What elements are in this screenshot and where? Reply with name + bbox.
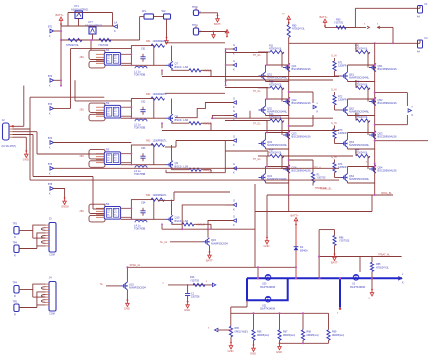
wire U51 left pin 4 [96,62,104,64]
wire loop upper U53 [89,150,105,159]
wire gate drop bank1 sw2 [281,88,283,102]
wire J3 loop 4-5 [41,236,45,239]
junction out1 bank1 [288,91,290,93]
wire SPDA horizontal [127,266,296,268]
svg-text:TP4: TP4 [13,282,18,285]
wire TP3a link [19,230,33,232]
svg-text:35xPTK3#DW: 35xPTK3#DW [350,286,366,289]
svg-text:TP70: TP70 [192,6,198,9]
wire TP bracket left drop [318,230,320,279]
wire J4 pin8 stub [46,301,50,303]
wire drain stub bank1 sw1 [265,65,267,72]
label U22 value 35xPTK3 [350,286,366,289]
wire J2 pin 4 stub [9,134,13,136]
svg-text:GND: GND [228,349,234,353]
transistor Q53 bank2 right [369,131,397,139]
svg-text:NT5024Y3L: NT5024Y3L [292,28,305,31]
wire J2 pin2 riser [29,97,31,129]
svg-text:BATT+: BATT+ [56,13,65,17]
junction kelvin row1a [225,48,227,50]
wire diode to bus [295,250,297,278]
resistor R85 [370,262,373,271]
label R69 [332,331,337,334]
svg-text:TP_G1: TP_G1 [253,123,261,126]
label R85 [376,263,381,266]
wire jumper W2 drop [166,19,168,37]
label R64 [146,194,151,197]
label U22 [352,283,356,286]
label R62 value 1206FRE07L [153,93,168,96]
svg-text:0R005(xxx): 0R005(xxx) [307,334,319,337]
wire out2 bank1 horizontal [289,159,313,161]
wire driver fet gate row2 [154,117,166,119]
junction shunt sense [230,329,232,331]
transistor Q24 bank1 right [283,165,311,173]
label R74 value [338,166,347,169]
wire driver fet gate row1 [154,64,166,66]
svg-text:AS431ANTR-E1: AS431ANTR-E1 [85,24,103,27]
power flag down W2 [165,37,169,44]
wire bus row4 gate top [174,191,230,193]
svg-text:0R005(xxx): 0R005(xxx) [257,334,269,337]
transistor Q33 bank1 left [259,140,288,148]
wire fuse1 riser [354,8,356,27]
svg-text:BSC0...LS6: BSC0...LS6 [175,65,189,69]
wire J2 pin4 horizontal [13,134,34,136]
wire C15 bottom stub [187,298,189,302]
svg-text:C62: C62 [141,100,146,103]
label J3 COM [49,254,55,257]
wire U53 left pin 2 [96,156,104,158]
junction riser row1 b [225,80,227,82]
port kelvin K3 [233,96,236,109]
svg-text:0R01(^b0&*): 0R01(^b0&*) [235,330,249,333]
wire TP4b link [19,307,37,309]
svg-text:220TE8: 220TE8 [191,296,200,299]
label R76 value Y3GT020 [98,44,109,47]
junction riser row1 a [225,51,227,53]
op-amp U51 gate driver [104,53,120,66]
junction shunt bottom 303 [302,342,304,344]
label net TP A [315,187,327,190]
wire out2 bank2 horizontal [375,140,428,142]
test point TP4a [14,286,19,294]
svg-text:GND: GND [264,244,270,248]
svg-text:BSC059N04LS6: BSC059N04LS6 [292,101,312,105]
svg-text:1206FR: 1206FR [338,65,347,68]
label R66 value [257,334,269,337]
wire J3 pin9 stub [46,245,50,247]
junction bus 340 [339,277,341,279]
wire R85 to bus [371,272,373,279]
svg-text:GND: GND [23,158,29,162]
resistor R66 shunt [252,330,255,341]
resistor R86 [333,236,336,246]
wire out1 bank1 drop [312,92,314,103]
label net gate bank1 sw1 [253,54,261,57]
wire driver fet drain row2 [171,99,173,115]
svg-text:BSC059N04LS6: BSC059N04LS6 [378,67,398,71]
wire gate feed bank2 sw3 [355,113,357,121]
op-amp U53 gate driver [104,152,120,165]
junction out2 bank2 low [374,163,376,165]
label R13 bank1 [269,113,274,116]
wire row4 left drop [161,224,163,229]
wire source stub bank2 sw1 [347,80,349,82]
wire U71 bottom stub [78,19,80,27]
label pin net U52 [80,109,85,112]
jumper W2 [162,9,171,19]
transistor Q32 bank1 left [259,106,288,114]
wire kelvin K3 stub [225,102,233,104]
wire J3 pin2 stub [46,227,50,229]
wire row2 feed2 riser [74,80,76,101]
wire BT1 route [54,30,61,32]
wire U53 right pin2 [121,162,132,164]
svg-text:BT1: BT1 [48,27,53,29]
resistor gate R42 bank2 [356,86,370,89]
wire shunt4 stub [302,313,304,330]
label R86 [339,236,344,239]
wire top loop left vertical [67,13,69,27]
svg-text:F1: F1 [425,2,428,6]
wire kelvin riser row1 [225,49,227,86]
svg-text:TDK765B: TDK765B [134,73,146,77]
wire top loop horizontal [68,12,113,14]
wire J2 pin2 riser low [29,129,31,180]
net tie right [378,26,381,29]
port input BT1 [48,27,54,38]
wire J4 loop 4-5 [41,295,45,298]
svg-text:TP5: TP5 [13,301,18,304]
svg-text:GND: GND [250,352,256,356]
svg-text:K: K [233,67,235,71]
svg-text:VC: VC [114,160,117,162]
wire rail2 vertical [374,43,376,195]
wire row1 res link [172,69,190,71]
wire diode feed [295,225,297,247]
wire shunt top bus [231,312,329,314]
junction SPDA drop [257,266,259,268]
junction gate bank1 sw3 [266,132,268,134]
wire row2 feed2 [75,100,131,102]
inductor L4 [134,220,147,230]
label R68 value [307,334,319,337]
label net out2 bank2 [366,161,368,164]
wire TP res drop [371,257,373,263]
wire kelvin K7 stub [225,204,233,206]
junction row2 res [161,122,163,124]
junction cap loop2 U53 [131,164,133,166]
junction bank2 rail top [374,42,376,44]
resistor R54 [182,223,194,226]
wire bus s4 kelvin2 [30,179,339,181]
svg-text:NC: NC [107,215,111,217]
svg-text:K: K [233,51,235,55]
port kelvin K2 [233,59,236,72]
junction out1 bank2 [374,92,376,94]
regulator U71 [75,11,83,19]
svg-text:K: K [233,118,235,122]
label R11 bank1 [269,45,274,48]
junction BT1 [60,30,62,32]
resistor R65 shunt [229,326,232,337]
wire kelvin K5 stub [225,140,233,142]
svg-text:G_HI: G_HI [331,122,337,125]
wire BT6 route [54,189,65,199]
wire row3 right elbow [201,169,211,171]
wire rail1 vertical [288,37,290,195]
svg-text:BSC0...LS6: BSC0...LS6 [175,118,189,122]
wire return bus 211 [255,211,372,213]
label TP4b [13,301,18,304]
svg-text:COM: COM [49,313,55,316]
wire SPDA drop to bus [257,267,259,278]
wire drain link bank2 sw2 [348,98,375,100]
wire J4 pin5 stub [46,294,50,296]
label net gate4 [331,156,337,159]
wire Q15 source drop [209,246,211,252]
wire bank rail bus horizontal [289,42,420,44]
svg-text:BT5: BT5 [48,164,53,166]
label R73 [338,129,343,132]
svg-text:K: K [233,105,235,109]
wire source stub bank2 sw3 [347,148,349,150]
transistor Q15 low-side [203,238,229,246]
label J4 COM [49,313,55,316]
wire out2 bank1 drop [312,160,314,173]
power flag down TP71 [212,31,216,38]
label C63 [141,147,146,150]
svg-text:BATT-: BATT- [331,261,339,265]
wire U52 right pin1 [121,106,132,108]
label TP3b [13,242,18,245]
junction drain bank1 sw3 [288,132,290,134]
wire gnd drop bank1 [266,195,268,238]
wire U53 left pin 4 [96,162,104,164]
label R43 value bank2 [355,116,368,119]
label U53 [105,147,110,151]
svg-text:VC: VC [114,215,117,217]
svg-text:K: K [317,109,319,113]
wire sw4 gate jog [267,151,269,156]
junction cap loop2 U54 [131,218,133,220]
wire J4 second loop [37,292,46,305]
wire row3 res link [172,169,190,171]
wire J4 pin2 stub [46,286,50,288]
svg-text:R62: R62 [146,93,151,96]
wire TP3b link riser [36,246,38,249]
wire bus sw2 gate [225,87,268,89]
wire U51 right pin2 [121,62,132,64]
junction kelvin row2 tee [211,117,213,119]
diode D1 [294,245,308,252]
junction loop1 drop [90,39,92,41]
wire U53 loop bottom ext [121,164,132,166]
wire J2 pin5 horizontal [13,136,27,138]
svg-text:NC: NC [107,114,111,116]
label R67 [283,331,288,334]
wire source link bank1 sw1 [266,81,289,83]
transistor U22 bus [353,275,359,281]
wire out1 bank1 horizontal [289,91,313,93]
wire source stub bank2 sw2 [347,114,349,116]
label net SL2 [100,283,104,286]
label R65 value [235,330,249,333]
svg-text:R: R [14,295,16,298]
svg-text:BSC059N04LS6: BSC059N04LS6 [378,169,398,173]
wire drain stub bank2 sw1 [347,65,349,72]
wire U53 left pin 1 [96,153,104,155]
op-amp U54 gate driver [104,207,120,220]
wire driver fet source row4 [171,223,173,224]
wire driver fet gate row3 [154,164,166,166]
label R14 value bank1 [269,152,282,155]
wire U15 source drop [126,290,128,300]
svg-text:BSC059N04LS6: BSC059N04LS6 [292,169,312,173]
resistor R67 shunt [278,330,281,341]
label R69 value [332,334,344,337]
wire rail1 top stub [288,22,290,25]
svg-text:2B1: 2B1 [80,155,85,158]
wire cap loop U54 [131,200,153,220]
label C61 [141,47,146,50]
svg-text:NT5024Y3L: NT5024Y3L [355,83,368,86]
label net 3V3 row2 [203,122,212,125]
resistor R17 sense [311,173,314,183]
svg-text:TP_G1: TP_G1 [253,54,261,57]
svg-text:K: K [233,207,235,211]
label R86 value Y3GT020 [339,240,350,243]
transistor U21 bus [265,296,271,302]
svg-text:K: K [233,223,235,227]
transistor Q51 bank2 right [369,64,397,72]
wire J2 pin1 riser [23,86,25,127]
wire row2 right elbow [201,122,211,124]
svg-text:NT5024Y3L: NT5024Y3L [269,152,282,155]
junction cap loop U52 [131,106,133,108]
wire drain stub bank2 sw4 [347,167,349,174]
wire source link bank2 sw4 [348,182,375,184]
wire gate drop bank2 sw2 [367,88,369,102]
fuse F2 [418,36,428,48]
junction row4 res [161,223,163,225]
power flag BATT+ mid-top [225,30,229,38]
wire cap loop U53 [131,145,153,165]
label U77 value AS431ANTR-E1 [85,24,103,27]
svg-text:GND8: GND8 [61,205,69,209]
label R63 [146,139,151,142]
svg-text:1A: 1A [114,20,117,24]
junction SPDA U15 [126,266,128,268]
label R80 [292,24,297,27]
label R42 bank2 [355,80,360,83]
port pin 1A [114,20,117,33]
label TP3a ref [14,236,16,239]
port out1 bank2 [408,105,413,117]
wire driver fet source row1 [171,69,173,70]
wire drain link bank2 sw1 [348,64,375,66]
label net gate bank1 sw2 [253,90,261,93]
wire row1 left drop [161,70,163,75]
label TP70 ref [200,12,202,15]
svg-text:BSC059N04LS6: BSC059N04LS6 [292,135,312,139]
wire pulldown gate link sw3 [335,143,341,145]
wire R68 bottom stub [302,340,304,343]
wire BT3 route [54,107,71,109]
label net mid x [163,282,165,285]
net stub TP71 [195,26,197,29]
capacitor C61 [140,54,145,62]
junction drive row1 batt [60,85,62,87]
capacitor C63 [140,153,145,161]
net tie left [367,26,370,29]
svg-text:0R005(xxx): 0R005(xxx) [332,334,344,337]
wire bus row4 rail [162,228,255,230]
wire out1 bank2 drop [406,93,408,106]
net stub TP70 [195,8,197,11]
ground shunt bottom [276,342,282,353]
port mid SPDA out [212,283,215,286]
svg-text:G: G [233,43,235,47]
wire drain stub bank2 sw2 [347,99,349,106]
wire bus row3 rail [166,172,225,174]
wire drain stub bank1 sw4 [265,167,267,174]
wire loop upper U52 [89,103,105,112]
junction out1 bank2 low [374,124,376,126]
wire jumper riser [139,17,141,41]
label R43 bank2 [355,113,360,116]
junction bus 320 [318,277,320,279]
resistor R90 [336,26,346,29]
port input BT2 [48,76,54,87]
junction gate bank1 sw2 [266,98,268,100]
wire BT3 riser [70,49,72,109]
svg-text:BATT-: BATT- [206,259,214,263]
label pin net U53 [80,155,85,158]
wire gate drop bank2 sw4 [367,156,369,169]
junction drain bank1 sw2 [288,98,290,100]
svg-text:BATT+: BATT+ [291,213,300,217]
svg-text:AS431ANTR-E1: AS431ANTR-E1 [71,8,89,11]
label R66 [257,331,262,334]
wire TP4b link riser [36,305,38,308]
label R13 value bank1 [269,116,282,119]
label R72 value [338,99,347,102]
junction out2 bank1 [288,159,290,161]
wire J3 pin4 stub [46,232,50,234]
port kelvin K8 [233,214,236,227]
junction drain bank2 sw4 [374,166,376,168]
svg-text:BSC059N04LS6: BSC059N04LS6 [292,67,312,71]
label net gate2 [331,89,337,92]
junction batt res row [60,39,62,41]
wire return drop left [254,184,256,267]
svg-text:GND: GND [124,307,130,311]
junction out2 bank2 [374,140,376,142]
label R90 [336,18,341,21]
svg-text:COM: COM [49,254,55,257]
svg-text:K: K [114,29,116,33]
label C64 [141,201,146,204]
wire gate drop bank1 sw1 [281,52,283,68]
wire gate drop2 bank1 sw2 [266,88,268,99]
wire U54 right pin2 [121,216,132,218]
label R11 value bank1 [269,48,282,51]
wire source bus bottom [267,194,393,196]
svg-text:NT5024Y3L: NT5024Y3L [269,116,282,119]
wire U53 left pin 3 [96,159,104,161]
